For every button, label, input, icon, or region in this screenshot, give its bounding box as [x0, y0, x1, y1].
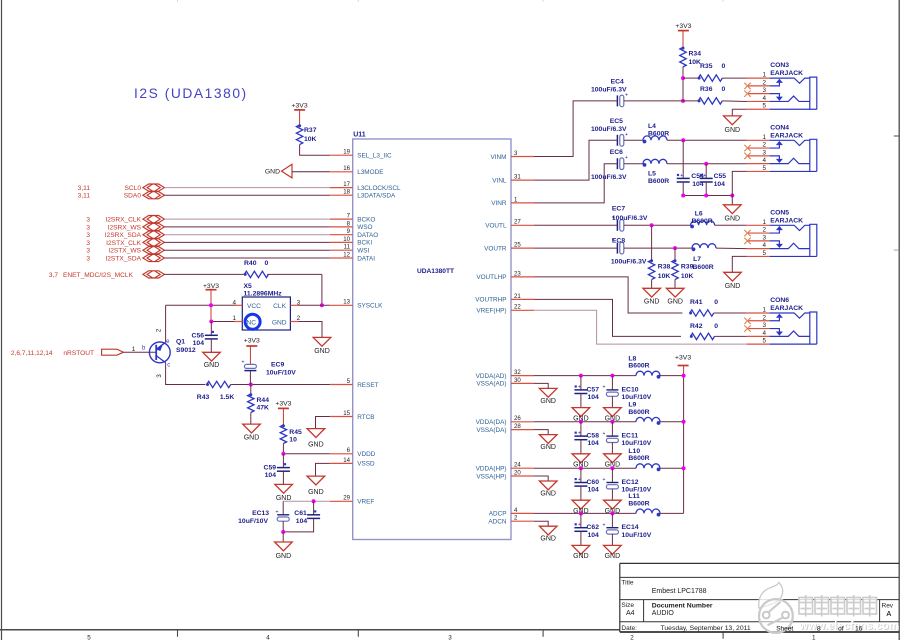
wire R43 to RESET	[231, 384, 330, 386]
svg-text:EC10: EC10	[622, 386, 639, 393]
power +3V3 (R45)	[275, 401, 291, 409]
capacitor EC11 10uF/10V	[603, 422, 652, 447]
off-page connector I2SRX_WS	[86, 223, 164, 231]
svg-text:GND: GND	[276, 553, 292, 560]
svg-text:L3CLOCK/SCL: L3CLOCK/SCL	[357, 185, 401, 192]
svg-text:EC11: EC11	[622, 433, 639, 440]
svg-text:C57: C57	[587, 386, 600, 393]
svg-text:30: 30	[514, 377, 521, 384]
top zone ticks	[177, 0, 179, 2]
wire EC9 to RESET junction	[249, 371, 251, 384]
svg-text:10uF/10V: 10uF/10V	[622, 532, 652, 539]
ground CON5	[724, 272, 742, 290]
svg-text:R44: R44	[257, 397, 270, 404]
capacitor EC4 100uF/6.3V	[591, 79, 628, 107]
svg-text:C56: C56	[192, 332, 205, 339]
svg-text:EARJACK: EARJACK	[770, 305, 803, 312]
svg-text:100uF/6.3V: 100uF/6.3V	[612, 215, 648, 222]
svg-text:Size: Size	[621, 602, 634, 609]
capacitor C61 104	[294, 501, 320, 525]
svg-text:L4: L4	[648, 123, 656, 130]
oscillator X5 11.2896MHz	[232, 283, 300, 330]
svg-text:+: +	[680, 173, 683, 179]
L5 labels	[648, 171, 669, 186]
junction ENET/SYSCLK	[320, 303, 324, 307]
wire I2SRX_CLK	[164, 218, 330, 220]
svg-text:U11: U11	[353, 132, 366, 139]
svg-text:CON6: CON6	[770, 297, 789, 304]
svg-text:10uF/10V: 10uF/10V	[622, 394, 652, 401]
svg-text:+3V3: +3V3	[244, 338, 260, 345]
right border zone ticks	[894, 135, 899, 137]
svg-text:VDDA(DA): VDDA(DA)	[476, 419, 507, 426]
junction EC13 bottom	[281, 530, 285, 534]
wire CON3 pin5 to gnd	[732, 109, 746, 116]
svg-text:100uF/6.3V: 100uF/6.3V	[591, 126, 627, 133]
wire I2STX_SDA	[164, 257, 330, 259]
svg-text:0: 0	[714, 299, 718, 306]
sheet left border	[1, 0, 3, 640]
wire SCL0	[164, 187, 330, 189]
svg-text:Embest LPC1788: Embest LPC1788	[652, 588, 707, 595]
wire +3V3 to R34	[682, 31, 684, 48]
junction dots row L9	[579, 420, 583, 424]
svg-text:Sheet: Sheet	[776, 625, 793, 632]
svg-text:AUDIO: AUDIO	[652, 610, 675, 617]
watermark logo (elecfans)	[759, 583, 900, 633]
wire Q1 emitter to VCC rail	[165, 305, 167, 342]
off-page connector nRSTOUT	[11, 349, 124, 357]
U11 pin 17 L3CLOCK/SCL (left)	[330, 181, 401, 192]
svg-text:C59: C59	[264, 465, 277, 472]
svg-text:NC: NC	[247, 319, 257, 326]
svg-text:X5: X5	[244, 283, 253, 290]
capacitor EC5 100uF/6.3V	[591, 118, 628, 146]
wire C56 to gnd	[210, 339, 212, 352]
svg-text:L11: L11	[628, 493, 640, 500]
svg-text:SYSCLK: SYSCLK	[357, 303, 383, 310]
svg-text:+: +	[625, 155, 628, 161]
svg-text:DATAO: DATAO	[357, 232, 378, 239]
capacitor EC13 10uF/10V	[238, 501, 289, 525]
svg-text:31: 31	[514, 174, 521, 181]
svg-text:10K: 10K	[681, 273, 694, 280]
resistor R38 10K	[648, 225, 670, 280]
wire EC6 to L5	[624, 163, 643, 165]
junction VDDD/C59	[281, 452, 285, 456]
power +3V3 (X5)	[203, 283, 219, 290]
wire R35 row	[683, 77, 698, 79]
svg-text:10uF/10V: 10uF/10V	[622, 440, 652, 447]
U11 pin 30 VSSA(AD) (right)	[476, 377, 534, 388]
off-page connector I2STX_CLK	[86, 239, 164, 247]
wire VSSD to gnd	[316, 463, 330, 476]
ground R44	[243, 424, 261, 441]
U11 pin 11 WSI (left)	[330, 244, 370, 255]
svg-text:10K: 10K	[304, 136, 317, 143]
svg-text:R42: R42	[690, 323, 703, 330]
svg-text:L3MODE: L3MODE	[357, 169, 383, 176]
svg-text:ADCP: ADCP	[489, 511, 507, 518]
U11 pin 28 VSSA(DA) (right)	[476, 423, 534, 434]
svg-text:10: 10	[289, 437, 297, 444]
wire VDDD row	[283, 453, 330, 455]
svg-text:S9012: S9012	[176, 347, 196, 354]
svg-text:8: 8	[817, 625, 821, 632]
ground R39	[666, 288, 684, 305]
svg-text:104: 104	[588, 487, 600, 494]
inductor L6 B600R	[691, 221, 715, 225]
svg-text:25: 25	[514, 242, 521, 249]
U11 pin 9 DATAO (left)	[330, 228, 378, 239]
ground CON3	[724, 116, 742, 134]
svg-text:C61: C61	[294, 510, 307, 517]
no-connect pins 2,3 CON3	[744, 83, 769, 97]
svg-text:VINL: VINL	[492, 177, 507, 184]
svg-text:+3V3: +3V3	[275, 401, 291, 408]
svg-text:R39: R39	[681, 264, 694, 271]
wire VREF(HP) to CON6 pin5	[534, 310, 747, 344]
pin stubs CON5	[747, 225, 770, 256]
connector CON6 EARJACK	[762, 297, 816, 345]
svg-text:GND: GND	[573, 553, 589, 560]
svg-text:GND: GND	[725, 283, 741, 290]
svg-text:VSSA(HP): VSSA(HP)	[476, 473, 506, 480]
U11 pin 15 RTCB (left)	[330, 410, 375, 421]
svg-text:22: 22	[514, 304, 521, 311]
off-page connector I2SRX_CLK	[86, 216, 164, 224]
svg-text:10uF/10V: 10uF/10V	[266, 369, 296, 376]
off-page connector I2SRX_SDA	[86, 231, 164, 239]
resistor R40 0	[244, 260, 269, 277]
wire VDDA row L10	[534, 467, 581, 469]
svg-text:19: 19	[343, 149, 350, 156]
L7 labels	[693, 256, 714, 271]
ground X5 pin2	[313, 337, 331, 354]
svg-text:A4: A4	[626, 610, 635, 617]
power +3V3 (R37)	[292, 103, 308, 110]
capacitor C56 104	[192, 322, 218, 347]
IC U11 body	[353, 139, 511, 540]
wire CON5 pin5 to gnd	[732, 256, 746, 272]
capacitor C58 104	[574, 422, 599, 447]
svg-text:R40: R40	[244, 260, 257, 267]
resistor R37 10K	[296, 124, 316, 144]
U11 pin 1 VINR (right)	[491, 196, 534, 207]
svg-text:23: 23	[514, 270, 521, 277]
wire VSSA row to gnd	[534, 521, 548, 526]
no-connect pins 2,3 CON5	[744, 230, 769, 244]
svg-text:+: +	[276, 510, 279, 516]
U11 pin 7 BCKO (left)	[330, 213, 375, 224]
wire C54/C55 bottom	[682, 182, 684, 196]
svg-text:EARJACK: EARJACK	[770, 217, 803, 224]
svg-text:VOUTLHP: VOUTLHP	[476, 274, 506, 281]
svg-text:3: 3	[86, 224, 90, 231]
svg-text:nRSTOUT: nRSTOUT	[63, 350, 94, 357]
svg-text:C60: C60	[587, 479, 600, 486]
svg-text:Document Number: Document Number	[652, 603, 713, 610]
svg-text:2: 2	[156, 328, 163, 332]
svg-text:VSSA(DA): VSSA(DA)	[476, 427, 506, 434]
svg-text:BCKO: BCKO	[357, 216, 375, 223]
svg-text:4: 4	[266, 634, 270, 640]
wire +3V3 to R45	[282, 408, 284, 425]
svg-text:CON3: CON3	[770, 62, 789, 69]
capacitor C62 104	[574, 513, 599, 538]
svg-text:+: +	[603, 385, 606, 391]
junction +3V3/VCC	[209, 303, 213, 307]
svg-text:VOUTL: VOUTL	[485, 223, 507, 230]
svg-text:CON5: CON5	[770, 209, 789, 216]
inductor L5 B600R	[643, 159, 667, 163]
U11 pin 32 VDDA(AD) (right)	[476, 369, 534, 380]
svg-text:+3V3: +3V3	[675, 23, 691, 30]
svg-text:10K: 10K	[658, 273, 671, 280]
svg-text:EC5: EC5	[610, 118, 623, 125]
svg-text:+: +	[578, 431, 581, 437]
junction L4/C54	[681, 138, 685, 142]
resistor R35 0	[698, 63, 726, 81]
junction pin1/C56	[209, 320, 213, 324]
svg-text:+: +	[603, 522, 606, 528]
svg-text:0: 0	[714, 323, 718, 330]
inductor L7 B600R	[692, 244, 716, 248]
svg-text:16: 16	[855, 625, 863, 632]
off-page connector I2STX_SDA	[86, 254, 164, 262]
svg-text:R35: R35	[700, 63, 713, 70]
svg-text:100uF/6.3V: 100uF/6.3V	[591, 86, 627, 93]
U11 pin 22 VREF(HP) (right)	[476, 304, 534, 315]
wire nRSTOUT to Q1 base	[123, 351, 155, 353]
svg-text:+3V3: +3V3	[292, 103, 308, 110]
ground EC14	[604, 545, 622, 560]
wire VREF row	[283, 500, 330, 502]
wire X5 GND pin2	[298, 322, 322, 338]
svg-text:2: 2	[630, 634, 634, 640]
svg-text:1: 1	[132, 346, 136, 353]
svg-text:L10: L10	[628, 448, 640, 455]
off-page connector I2STX_WS	[86, 247, 164, 255]
svg-text:B600R: B600R	[628, 455, 649, 462]
svg-text:CON4: CON4	[770, 124, 789, 131]
L11 labels	[628, 493, 649, 507]
transistor Q1 S9012	[142, 328, 196, 378]
U11 pin 26 VDDA(DA) (right)	[476, 415, 534, 426]
svg-text:I2STX_WS: I2STX_WS	[108, 248, 141, 255]
svg-text:17: 17	[343, 181, 350, 188]
wire VSSA row to gnd	[534, 476, 548, 481]
wire +3V3 rail vertical	[683, 366, 685, 376]
wire EC4 to R36 junction	[624, 100, 698, 102]
U11 pin 4 ADCP (right)	[489, 507, 534, 518]
U11 pin 19 SEL_L3_IIC (left)	[330, 149, 392, 160]
wire EC5 to L4	[624, 139, 643, 141]
ground RTCB	[307, 429, 325, 449]
svg-text:+: +	[242, 360, 245, 366]
resistor R43 1.5K	[197, 381, 235, 401]
svg-text:47K: 47K	[257, 405, 270, 412]
svg-text:Title: Title	[621, 580, 633, 587]
L8 labels	[628, 355, 649, 369]
svg-text:R45: R45	[289, 429, 302, 436]
svg-text:I2S (UDA1380): I2S (UDA1380)	[134, 86, 248, 101]
svg-text:VCC: VCC	[247, 303, 261, 310]
wire R40 to SYSCLK	[267, 273, 322, 275]
U11 pin 29 VREF (left)	[330, 495, 374, 506]
svg-text:BCKI: BCKI	[357, 240, 372, 247]
junction dots row L8	[579, 374, 583, 378]
U11 pin 23 VOUTLHP (right)	[476, 270, 534, 281]
wire VOUTRHP to R42	[534, 299, 681, 336]
svg-text:VDDD: VDDD	[357, 451, 375, 458]
svg-text:3: 3	[86, 248, 90, 255]
resistor R36 0	[698, 86, 726, 104]
ground VSSA row L9	[539, 435, 557, 452]
svg-text:20: 20	[514, 469, 521, 476]
svg-text:+: +	[603, 431, 606, 437]
wire VSSA row to gnd	[534, 383, 548, 388]
title block texts	[621, 580, 893, 633]
no-connect pins 2,3 CON6	[744, 318, 769, 332]
wire L6 to CON5 pin1	[715, 224, 747, 226]
U11 pin 10 BCKI (left)	[330, 236, 372, 247]
svg-text:R43: R43	[197, 394, 210, 401]
off-page connector SCL0	[78, 184, 165, 192]
wire EC4 row to VINM	[534, 101, 617, 157]
wire VSSA row to gnd	[534, 430, 548, 435]
resistor R42 0	[690, 323, 719, 340]
svg-text:104: 104	[296, 518, 308, 525]
svg-text:+: +	[703, 173, 706, 179]
capacitor C54 104	[677, 140, 704, 188]
svg-text:104: 104	[714, 181, 726, 188]
svg-text:GND: GND	[605, 553, 621, 560]
svg-text:I2SRX_WS: I2SRX_WS	[108, 224, 142, 231]
wire X5 pin1 to C56	[211, 321, 234, 323]
svg-text:GND: GND	[204, 362, 220, 369]
wire R42 to CON6 pin4	[715, 335, 747, 337]
svg-text:ENET_MDC/I2S_MCLK: ENET_MDC/I2S_MCLK	[63, 272, 134, 279]
svg-text:27: 27	[514, 219, 521, 226]
svg-text:ADCN: ADCN	[488, 519, 506, 526]
off-page connector SDA0	[78, 192, 165, 200]
svg-text:GND: GND	[667, 298, 683, 305]
U11 pin 27 VOUTL (right)	[485, 219, 534, 230]
svg-text:Rev: Rev	[882, 603, 894, 610]
power +3V3 (filter rows)	[675, 355, 691, 366]
svg-text:3,11: 3,11	[78, 193, 91, 200]
svg-text:VOUTRHP: VOUTRHP	[475, 297, 506, 304]
svg-text:Tuesday, September 13, 2011: Tuesday, September 13, 2011	[661, 625, 751, 632]
svg-text:SCL0: SCL0	[125, 185, 142, 192]
power +3V3 (R34)	[675, 23, 691, 30]
junction VREF/C61	[312, 499, 316, 503]
svg-text:+3V3: +3V3	[203, 283, 219, 290]
svg-text:EC14: EC14	[622, 524, 639, 531]
svg-text:C58: C58	[587, 433, 600, 440]
ground VSSA row L8	[539, 388, 557, 405]
junction L5/C55	[704, 162, 708, 166]
svg-text:B600R: B600R	[692, 218, 713, 225]
pin stubs CON6	[747, 313, 770, 344]
sheet bottom border	[0, 629, 620, 631]
svg-text:RTCB: RTCB	[357, 414, 374, 421]
U11 pin 2 ADCN (right)	[488, 515, 534, 526]
capacitor EC10 10uF/10V	[603, 376, 652, 401]
svg-text:VOUTR: VOUTR	[484, 245, 507, 252]
capacitor EC14 10uF/10V	[603, 513, 652, 538]
junction dots row L11	[579, 511, 583, 515]
svg-text:+3V3: +3V3	[675, 355, 691, 362]
svg-text:0: 0	[722, 86, 726, 93]
wire GND to pin16	[292, 171, 330, 173]
svg-text:GND: GND	[540, 491, 556, 498]
svg-text:EC13: EC13	[252, 510, 269, 517]
wire SDA0	[164, 194, 330, 196]
svg-text:3: 3	[86, 240, 90, 247]
ground C58	[572, 454, 590, 469]
wire L7 to CON5 pin4	[716, 247, 747, 250]
wire L5 to CON4 pin4	[667, 163, 747, 165]
wire R45 to VDDD	[282, 444, 284, 454]
svg-text:SDA0: SDA0	[124, 193, 142, 200]
svg-text:GND: GND	[644, 298, 660, 305]
svg-text:of: of	[838, 625, 844, 632]
capacitor EC12 10uF/10V	[603, 468, 652, 493]
svg-text:14: 14	[343, 457, 350, 464]
wire VOUTL to EC7	[534, 224, 617, 226]
svg-text:13: 13	[343, 299, 350, 306]
svg-text:3: 3	[448, 634, 452, 640]
svg-text:GND: GND	[314, 348, 330, 355]
svg-text:2,6,7,11,12,14: 2,6,7,11,12,14	[11, 350, 53, 357]
capacitor C55 104	[700, 164, 727, 188]
svg-text:EC8: EC8	[612, 238, 625, 245]
svg-text:GND: GND	[308, 489, 324, 496]
svg-text:EARJACK: EARJACK	[770, 70, 803, 77]
svg-text:32: 32	[514, 369, 521, 376]
svg-text:VREF: VREF	[357, 499, 374, 506]
svg-text:B600R: B600R	[693, 264, 714, 271]
svg-text:100uF/6.3V: 100uF/6.3V	[611, 259, 647, 266]
svg-text:B600R: B600R	[628, 409, 649, 416]
svg-text:RESET: RESET	[357, 382, 378, 389]
L9 labels	[628, 402, 649, 416]
svg-text:VINR: VINR	[491, 200, 507, 207]
pin stubs CON3	[747, 78, 770, 109]
wire R37 to pin19	[300, 145, 330, 156]
wire Q1 collector down	[166, 363, 206, 385]
svg-text:26: 26	[514, 415, 521, 422]
U11 pin 21 VOUTRHP (right)	[475, 293, 534, 304]
svg-text:16: 16	[343, 165, 350, 172]
svg-text:VSSA(AD): VSSA(AD)	[476, 381, 506, 388]
svg-text:1: 1	[812, 634, 816, 640]
title block frame	[620, 563, 899, 632]
svg-text:L9: L9	[628, 402, 636, 409]
svg-text:R38: R38	[658, 264, 671, 271]
U11 pin 12 DATAI (left)	[330, 251, 375, 262]
svg-text:10uF/10V: 10uF/10V	[238, 518, 268, 525]
ground VSSD	[307, 476, 325, 496]
svg-text:GND: GND	[540, 444, 556, 451]
svg-text:0: 0	[265, 260, 269, 267]
svg-text:B600R: B600R	[628, 363, 649, 370]
wire +3V3 to EC9	[249, 346, 251, 365]
ground VSSA row L10	[539, 481, 557, 498]
svg-text:28: 28	[514, 423, 521, 430]
